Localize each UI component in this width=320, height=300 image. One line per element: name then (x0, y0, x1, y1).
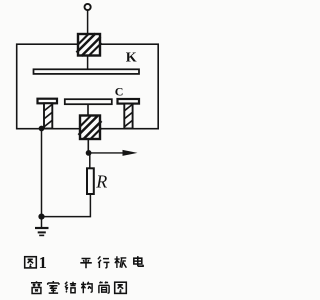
caption line 2: 简 (hand-drawn glyph) (99, 282, 109, 294)
caption line 1: 板 (hand-drawn glyph) (115, 256, 127, 268)
caption line 2: 图 (hand-drawn glyph) (115, 282, 127, 293)
guard insulator post (right, hatched) (124, 104, 133, 129)
caption line 2: 离 (hand-drawn glyph) (31, 281, 42, 293)
caption line 1: 图 (hand-drawn glyph) (25, 257, 37, 268)
caption line 1: 行 (hand-drawn glyph) (98, 256, 110, 268)
chamber box (ionization chamber wall) (17, 44, 159, 129)
wire (electrode C stem) (87, 104, 89, 116)
node (guard/wall ground junction) (39, 126, 45, 132)
electrode C (collector plate) (65, 99, 112, 104)
svg-text:1: 1 (39, 253, 47, 272)
wire (junction to resistor R) (89, 153, 91, 169)
wire (resistor bottom to ground bus) (42, 194, 91, 217)
svg-text:C: C (115, 84, 124, 98)
ground (35, 217, 49, 236)
caption line 2: 室 (hand-drawn glyph) (48, 281, 59, 293)
wire (terminal to top bushing) (87, 10, 89, 34)
node (signal junction) (86, 150, 92, 156)
wire (bushing to signal junction) (87, 139, 89, 153)
guard electrode cap (left) (38, 99, 58, 104)
wire (bushing to electrode K stem) (87, 56, 89, 70)
caption line 1: 平 (hand-drawn glyph) (80, 259, 92, 269)
signal output arrow (89, 150, 138, 156)
electrode K (top plate) (34, 69, 140, 74)
guard insulator post (left, hatched) (44, 103, 53, 128)
caption line 2: 结 (hand-drawn glyph) (65, 282, 76, 293)
terminal (HV input) (85, 4, 91, 10)
svg-text:R: R (95, 171, 107, 191)
svg-text:K: K (126, 51, 137, 66)
wire (left drop from chamber wall to ground bus) (41, 129, 43, 217)
insulator bushing (bottom, hatched) (79, 115, 102, 141)
insulator bushing (top, hatched) (77, 33, 102, 57)
guard electrode cap (right) (118, 99, 140, 104)
resistor R (87, 168, 94, 194)
node (ground junction) (38, 214, 44, 220)
caption line 1: 电 (hand-drawn glyph) (134, 256, 143, 266)
caption line 2: 构 (hand-drawn glyph) (81, 282, 92, 294)
